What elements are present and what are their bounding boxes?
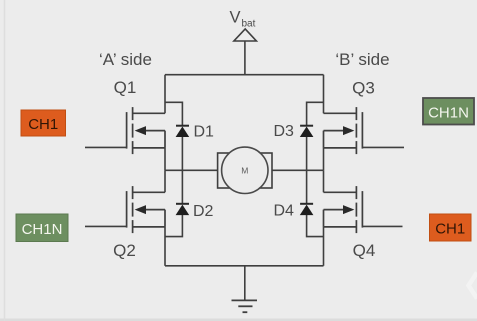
wire D1 to node A [181, 137, 183, 171]
CH1N tag left [16, 214, 68, 242]
svg-text:Q4: Q4 [353, 241, 376, 260]
svg-text:D4: D4 [274, 203, 295, 220]
node A [165, 169, 218, 171]
svg-text:bat: bat [242, 19, 256, 30]
svg-text:CH1N: CH1N [22, 221, 63, 238]
diode D1 [176, 126, 190, 137]
wire D3 to node B [306, 137, 308, 171]
wire Q3 gate [362, 146, 404, 148]
nav chevron overlay [469, 273, 477, 299]
svg-text:V: V [230, 8, 241, 26]
CH1N tag right [423, 98, 474, 125]
motor M [218, 147, 272, 193]
ground [232, 300, 258, 312]
wire Q4 gate [362, 225, 402, 227]
svg-text:CH1N: CH1N [428, 104, 469, 121]
wire Vbat to top rail [244, 41, 246, 75]
power symbol Vbat [234, 29, 257, 41]
wire Q1 gate [85, 146, 127, 148]
wire D3 tap [307, 102, 324, 126]
svg-text:‘B’ side: ‘B’ side [335, 50, 389, 69]
wire D2 to source bus [165, 215, 182, 237]
wire Q3 drain bus [323, 75, 325, 114]
CH1 tag right [430, 214, 472, 241]
svg-text:M: M [241, 165, 248, 175]
svg-text:CH1: CH1 [28, 116, 58, 133]
svg-text:D1: D1 [194, 123, 215, 140]
diode D2 [176, 204, 190, 215]
wire node A to D2 [181, 170, 183, 204]
wire node A to Q2 drain [164, 170, 166, 192]
wire ground tap [244, 266, 246, 301]
wire Q3 source to node B [323, 148, 325, 170]
wire Q1 source to node A [164, 148, 166, 170]
wire node B to D4 [306, 170, 308, 204]
transistor Q4 [324, 186, 363, 233]
wire top rail [165, 74, 324, 76]
CH1 tag left [21, 110, 66, 136]
Vbat label [230, 8, 256, 29]
svg-text:Q3: Q3 [352, 79, 375, 98]
wire D1 tap [165, 102, 182, 126]
svg-text:D3: D3 [274, 123, 295, 140]
svg-text:Q2: Q2 [113, 241, 136, 260]
wire D4 to source bus [307, 215, 324, 237]
diode D4 [300, 204, 314, 215]
wire node B to Q4 drain [323, 170, 325, 192]
wire Q4 source to bottom rail [323, 227, 325, 266]
node B [272, 169, 324, 171]
transistor Q1 [127, 107, 165, 154]
transistor Q3 [324, 107, 363, 154]
wire Q2 source to bottom rail [164, 227, 166, 266]
wire Q2 gate [85, 225, 127, 227]
svg-text:D2: D2 [193, 203, 214, 220]
wire Q1 drain bus [164, 75, 166, 114]
svg-text:‘A’ side: ‘A’ side [99, 50, 152, 69]
wire bottom rail [165, 265, 324, 267]
diode D3 [300, 126, 314, 137]
transistor Q2 [127, 186, 165, 233]
svg-text:CH1: CH1 [435, 221, 465, 238]
svg-text:Q1: Q1 [114, 78, 137, 97]
